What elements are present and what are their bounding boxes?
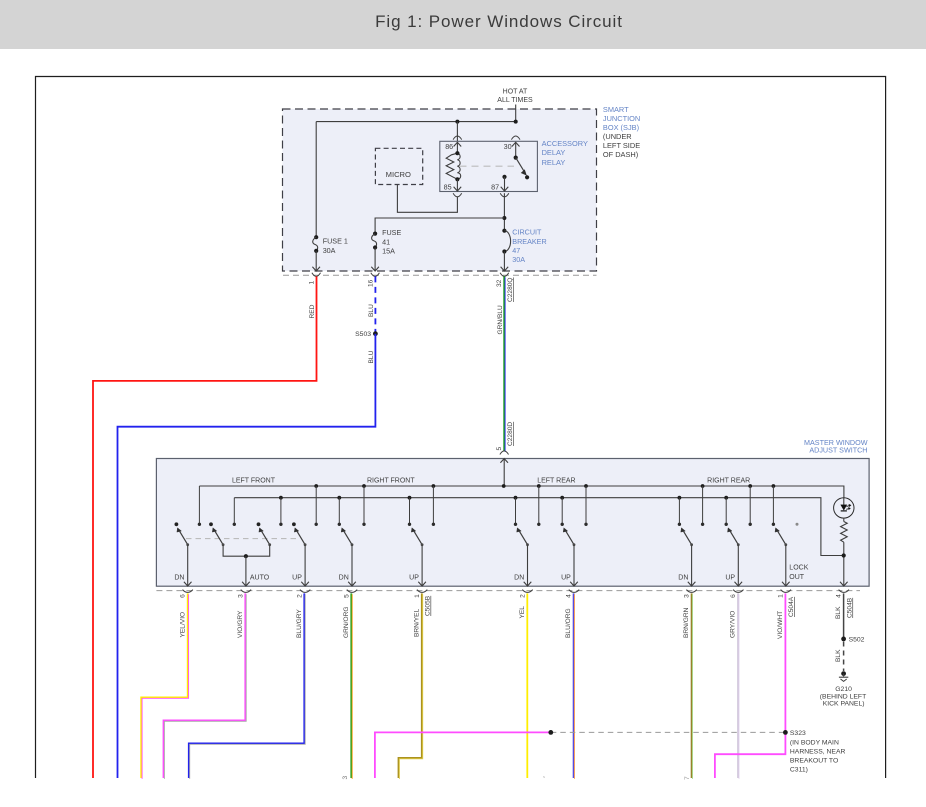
contact point x=562.2 bbox=[561, 523, 564, 526]
svg-text:16: 16 bbox=[367, 279, 374, 287]
svg-text:VIO/GRY: VIO/GRY bbox=[237, 610, 244, 638]
master connector arc x=785.8 bbox=[781, 590, 791, 593]
svg-text:87: 87 bbox=[491, 182, 499, 191]
relay actuator dashed link bbox=[460, 165, 515, 167]
splice S502 bbox=[841, 637, 846, 642]
svg-text:30: 30 bbox=[504, 142, 512, 151]
master switch entry connector arc bbox=[500, 451, 509, 455]
svg-text:YEL: YEL bbox=[519, 606, 526, 619]
svg-text:BLU/GRY: BLU/GRY bbox=[296, 609, 303, 638]
svg-text:32: 32 bbox=[496, 279, 503, 287]
breaker CB47 element bbox=[504, 231, 510, 252]
wire BLU/ORG run bbox=[573, 593, 575, 778]
node lower bus x=280.9 bbox=[279, 496, 283, 500]
switch output arrow RR UP bbox=[735, 582, 743, 586]
svg-text:(IN BODY MAIN: (IN BODY MAIN bbox=[790, 739, 839, 746]
open contact dot x=176.4 bbox=[175, 522, 179, 526]
lower-bus contact stub x=726.2 bbox=[725, 498, 727, 525]
upper-bus contact stub x=702.6 bbox=[702, 486, 704, 524]
switch output wire LF UP bbox=[304, 545, 306, 586]
relay pin 86 connector arc bbox=[453, 136, 462, 140]
svg-text:47: 47 bbox=[512, 246, 520, 255]
micro module dashed box bbox=[375, 148, 422, 184]
contact point x=364.0 bbox=[362, 523, 365, 526]
wire VIO/WHT upper run bbox=[784, 593, 786, 732]
relay pin 86 arrow bbox=[454, 142, 462, 146]
master connector arc x=245.9 bbox=[241, 590, 251, 593]
breaker CB47 bottom node bbox=[502, 249, 506, 253]
relay pin 87 arrow bbox=[501, 187, 509, 191]
svg-text:C505B: C505B bbox=[425, 595, 432, 616]
switch output arrow RF DN bbox=[348, 582, 356, 586]
lower-bus contact stub x=339.3 bbox=[338, 498, 340, 525]
switch blade LF DN bbox=[180, 531, 188, 544]
svg-text:RED: RED bbox=[309, 304, 316, 318]
svg-text:LEFT SIDE: LEFT SIDE bbox=[603, 141, 640, 150]
svg-text:15A: 15A bbox=[382, 247, 395, 256]
upper-bus contact stub x=750.2 bbox=[749, 486, 751, 524]
svg-text:4: 4 bbox=[566, 594, 573, 598]
svg-text:GRN/BLU: GRN/BLU bbox=[497, 305, 504, 335]
wire SJB top bus bbox=[316, 121, 516, 123]
upper-bus contact stub x=773.4 bbox=[772, 486, 774, 524]
wire BLU lower run bbox=[118, 334, 376, 778]
svg-text:OUT: OUT bbox=[789, 574, 805, 581]
lower-bus contact stub x=280.9 bbox=[280, 498, 282, 525]
master switch entry arrow bbox=[500, 459, 508, 463]
svg-text:AUTO: AUTO bbox=[250, 574, 270, 581]
diagram outer frame bbox=[36, 77, 886, 779]
SJB breaker connector arc bbox=[500, 273, 509, 277]
ground G210 symbol bbox=[843, 674, 845, 677]
svg-text:UP: UP bbox=[561, 574, 571, 581]
switch blade RF UP bbox=[414, 531, 422, 544]
open contact dot x=258.5 bbox=[257, 522, 261, 526]
node lower bus x=562.2 bbox=[560, 496, 564, 500]
wire fuse41 to SJB edge bbox=[374, 248, 376, 272]
svg-text:5: 5 bbox=[496, 447, 503, 451]
svg-text:C504B: C504B bbox=[846, 597, 853, 618]
fuse F1 element bbox=[313, 237, 318, 251]
svg-text:CIRCUIT: CIRCUIT bbox=[512, 228, 542, 237]
node upper bus x=316.2 bbox=[314, 484, 318, 488]
fuse F41 bottom node bbox=[373, 245, 377, 249]
wire GRY/VIO run bbox=[737, 593, 739, 778]
fuse F41 element bbox=[372, 234, 377, 248]
fuse F1 bottom node bbox=[314, 249, 318, 253]
svg-text:S503: S503 bbox=[355, 331, 371, 338]
upper-bus contact stub x=586.0 bbox=[585, 486, 587, 524]
switch blade LR DN bbox=[520, 531, 528, 544]
svg-text:BLU: BLU bbox=[368, 350, 375, 363]
svg-text:GRY/VIO: GRY/VIO bbox=[730, 611, 737, 638]
switch output arrow LF UP bbox=[301, 582, 309, 586]
auto tie node bbox=[244, 554, 248, 558]
svg-text:85: 85 bbox=[444, 182, 452, 191]
master connector arc x=352.0 bbox=[347, 590, 357, 593]
SJB exit arrow breaker bbox=[501, 267, 509, 271]
svg-text:3: 3 bbox=[237, 594, 244, 598]
contact point x=702.6 bbox=[701, 523, 704, 526]
contact point x=726.2 bbox=[725, 523, 728, 526]
wire VIO/GRY run bbox=[164, 593, 246, 778]
switch output wire RR DN bbox=[691, 545, 693, 586]
master connector arc x=738.3 bbox=[733, 590, 743, 593]
node lower bus x=679.4 bbox=[678, 496, 682, 500]
svg-text:ACCESSORY: ACCESSORY bbox=[542, 139, 588, 148]
LED anode wire bbox=[843, 498, 845, 505]
svg-text:RELAY: RELAY bbox=[542, 158, 566, 167]
svg-text:G210: G210 bbox=[835, 686, 852, 693]
svg-text:LOCK: LOCK bbox=[789, 564, 808, 571]
lower-bus contact stub x=234.3 bbox=[233, 498, 235, 525]
switch output wire RF DN bbox=[351, 545, 353, 586]
svg-text:KICK PANEL): KICK PANEL) bbox=[823, 701, 865, 708]
fuse F1 top node bbox=[314, 235, 318, 239]
splice S323 node bbox=[783, 730, 788, 735]
relay switch common node pin 30 bbox=[514, 156, 518, 160]
resistor below LED bbox=[841, 522, 848, 543]
LED cathode bar bbox=[841, 510, 847, 512]
upper-bus contact stub x=433.4 bbox=[432, 486, 434, 524]
node upper bus x=364.0 bbox=[362, 484, 366, 488]
svg-text:HOT AT: HOT AT bbox=[503, 89, 528, 96]
svg-text:C504A: C504A bbox=[788, 596, 795, 617]
SJB exit arrow fuse41 bbox=[371, 267, 379, 271]
svg-text:86: 86 bbox=[445, 142, 453, 151]
node upper bus x=750.2 bbox=[748, 484, 752, 488]
switch output arrow LR UP bbox=[570, 582, 578, 586]
svg-text:6: 6 bbox=[180, 594, 187, 598]
svg-text:3: 3 bbox=[684, 594, 691, 598]
open contact dot x=211.0 bbox=[209, 522, 213, 526]
switch output arrow LF DN bbox=[184, 582, 192, 586]
svg-text:OF DASH): OF DASH) bbox=[603, 150, 638, 159]
contact point x=515.5 bbox=[514, 523, 517, 526]
wire pin86 to coil bbox=[456, 142, 458, 153]
node top bus / pin86 branch bbox=[455, 120, 459, 124]
master window adjust switch enclosure bbox=[156, 459, 869, 587]
contact point x=199.4 bbox=[198, 523, 201, 526]
node upper bus x=773.4 bbox=[772, 484, 776, 488]
contact point x=773.4 bbox=[772, 523, 775, 526]
svg-text:MICRO: MICRO bbox=[386, 170, 411, 179]
lower-bus contact stub x=562.2 bbox=[561, 498, 563, 525]
svg-text:SMART: SMART bbox=[603, 105, 629, 114]
wire YEL/VIO run bbox=[141, 593, 188, 778]
wire lower feed bus bbox=[234, 498, 843, 556]
master connector arc x=691.6 bbox=[686, 590, 696, 593]
svg-text:DN: DN bbox=[514, 574, 524, 581]
node resistor/bus join bbox=[842, 553, 846, 557]
relay switch blade end dot bbox=[525, 175, 529, 179]
svg-text:S502: S502 bbox=[849, 636, 865, 643]
SJB fuse41 connector arc bbox=[371, 273, 380, 277]
relay pin 30 connector arc bbox=[511, 136, 520, 140]
svg-text:RIGHT REAR: RIGHT REAR bbox=[707, 477, 750, 484]
svg-text:30A: 30A bbox=[323, 246, 336, 255]
SJB exit arrow fuse1 bbox=[312, 267, 320, 271]
contact point x=538.8 bbox=[537, 523, 540, 526]
svg-text:1: 1 bbox=[308, 281, 315, 285]
relay switch blade arrowhead bbox=[521, 170, 526, 175]
svg-text:30A: 30A bbox=[512, 255, 525, 264]
svg-text:BOX (SJB): BOX (SJB) bbox=[603, 123, 639, 132]
contact point x=316.2 bbox=[315, 523, 318, 526]
svg-text:UP: UP bbox=[409, 574, 419, 581]
relay pin 87 connector arc bbox=[500, 193, 509, 197]
svg-text:JUNCTION: JUNCTION bbox=[603, 114, 640, 123]
wire upper feed bus bbox=[199, 486, 844, 498]
wire VIO/WHT lower run bbox=[715, 732, 786, 778]
svg-text:GRN/ORG: GRN/ORG bbox=[343, 606, 350, 638]
svg-text:(BEHIND LEFT: (BEHIND LEFT bbox=[820, 693, 866, 700]
svg-text:6: 6 bbox=[730, 594, 737, 598]
upper-bus contact stub x=199.4 bbox=[198, 486, 200, 524]
relay coil humps bbox=[457, 153, 460, 179]
page title bar bbox=[0, 0, 926, 49]
master connector arc x=422.1 bbox=[417, 590, 427, 593]
node upper bus x=538.8 bbox=[537, 484, 541, 488]
wire RED circuit 1 bbox=[93, 276, 317, 778]
master switch connector face dashed line bbox=[156, 590, 860, 592]
svg-text:1: 1 bbox=[777, 594, 784, 598]
svg-text:DN: DN bbox=[174, 574, 184, 581]
smart junction box (SJB) enclosure bbox=[283, 109, 597, 271]
node lower bus x=409.5 bbox=[408, 496, 412, 500]
relay pin 30 arrow bbox=[512, 142, 520, 146]
SJB connector face dashed line bbox=[283, 274, 597, 276]
svg-text:HARNESS, NEAR: HARNESS, NEAR bbox=[790, 748, 846, 755]
switch output wire LF AUTO bbox=[245, 556, 247, 586]
wire micro to relay pin 85 bbox=[397, 185, 457, 213]
node upper bus x=586.0 bbox=[584, 484, 588, 488]
fuse F41 top node bbox=[373, 232, 377, 236]
ground G210 node bbox=[841, 671, 846, 676]
svg-text:LEFT REAR: LEFT REAR bbox=[537, 477, 575, 484]
node top bus / pin30 feed bbox=[514, 120, 518, 124]
svg-text:C2280Q: C2280Q bbox=[507, 277, 514, 302]
wire top bus to fuse 1 bbox=[315, 122, 317, 238]
LED arrow 2 bbox=[846, 508, 849, 511]
svg-text:ADJUST SWITCH: ADJUST SWITCH bbox=[809, 446, 867, 455]
node upper bus x=702.6 bbox=[701, 484, 705, 488]
switch blade LF AUTO-L bbox=[215, 531, 223, 544]
svg-text:DN: DN bbox=[678, 574, 688, 581]
relay switch blade bbox=[516, 158, 526, 174]
svg-text:(UNDER: (UNDER bbox=[603, 132, 632, 141]
contact point x=280.9 bbox=[279, 523, 282, 526]
svg-text:BLK: BLK bbox=[835, 606, 842, 619]
switch output wire LF DN bbox=[187, 545, 189, 586]
node lower bus x=515.5 bbox=[514, 496, 518, 500]
master connector arc x=187.7 bbox=[183, 590, 193, 593]
switch blade LF AUTO-R bbox=[262, 531, 270, 544]
svg-text:FUSE 1: FUSE 1 bbox=[323, 237, 348, 246]
svg-text:ALL TIMES: ALL TIMES bbox=[497, 97, 533, 104]
contact point x=679.4 bbox=[678, 523, 681, 526]
switch output arrow BLK bbox=[840, 582, 848, 586]
svg-text:BREAKOUT TO: BREAKOUT TO bbox=[790, 758, 838, 765]
wire pin 87 drop bbox=[504, 177, 506, 191]
svg-text:BREAKER: BREAKER bbox=[512, 237, 546, 246]
svg-text:7: 7 bbox=[684, 776, 691, 780]
switch output arrow LR DN bbox=[524, 582, 532, 586]
wire pin86 drop bbox=[456, 122, 458, 142]
clipped mark near YEL bbox=[544, 777, 545, 778]
node coil bottom bbox=[455, 177, 459, 181]
wire VIO/WHT branch run bbox=[375, 732, 551, 778]
switch output arrow RF UP bbox=[418, 582, 426, 586]
svg-text:UP: UP bbox=[292, 574, 302, 581]
open contact dot lockout bbox=[796, 523, 799, 526]
svg-text:S323: S323 bbox=[790, 730, 806, 737]
wire BRN/YEL run bbox=[399, 593, 422, 778]
svg-text:BLK: BLK bbox=[835, 649, 842, 662]
SJB fuse1 connector arc bbox=[312, 273, 321, 277]
svg-text:2: 2 bbox=[519, 594, 526, 598]
master connector arc x=843.8 bbox=[839, 590, 849, 593]
node lower bus x=726.2 bbox=[724, 496, 728, 500]
svg-text:1: 1 bbox=[414, 594, 421, 598]
master connector arc x=574.0 bbox=[569, 590, 579, 593]
svg-text:FUSE: FUSE bbox=[382, 228, 401, 237]
svg-text:BLU: BLU bbox=[368, 304, 375, 317]
svg-text:4: 4 bbox=[836, 594, 843, 598]
switch blade RR UP bbox=[730, 531, 738, 544]
splice S503 bbox=[373, 331, 378, 336]
wire hot feed into SJB bbox=[515, 105, 517, 122]
node upper bus x=433.4 bbox=[432, 484, 436, 488]
svg-text:5: 5 bbox=[343, 594, 350, 598]
node breaker / fuse41 tap bbox=[502, 216, 506, 220]
svg-text:C2280D: C2280D bbox=[507, 422, 514, 446]
node upper bus x=503.7 bbox=[502, 484, 506, 488]
wire BLU dashed segment above S503 bbox=[374, 276, 376, 333]
auto switch tie bar bbox=[223, 545, 270, 557]
wire relay 87 to circuit breaker bbox=[503, 193, 505, 231]
svg-text:C311): C311) bbox=[790, 767, 808, 774]
contact point x=234.3 bbox=[233, 523, 236, 526]
lower-bus contact stub x=515.5 bbox=[515, 498, 517, 525]
switch blade LOCKOUT bbox=[778, 531, 786, 544]
switch output wire RF UP bbox=[421, 545, 423, 586]
contact point x=433.4 bbox=[432, 523, 435, 526]
wire C2280D inside master box bbox=[503, 459, 505, 486]
lower-bus contact stub x=679.4 bbox=[678, 498, 680, 525]
svg-text:VIO/WHT: VIO/WHT bbox=[777, 611, 784, 639]
wire LED to resistor bbox=[843, 518, 845, 521]
wire resistor to lockout feed node bbox=[843, 542, 845, 586]
contact point x=339.3 bbox=[338, 523, 341, 526]
switch blade RR DN bbox=[684, 531, 692, 544]
wire BRN/GRN run bbox=[691, 593, 693, 778]
wire YEL run bbox=[526, 593, 528, 778]
wire breaker to SJB edge bbox=[503, 252, 505, 272]
relay pin 85 arrow bbox=[454, 187, 462, 191]
lower-bus contact stub x=409.5 bbox=[409, 498, 411, 525]
contact point x=586.0 bbox=[584, 523, 587, 526]
accessory delay relay box bbox=[440, 141, 538, 191]
switch output wire LR UP bbox=[573, 545, 575, 586]
switch output wire LOCKOUT bbox=[785, 545, 787, 586]
wire fuse 41 feed bbox=[375, 218, 504, 234]
relay pin 87 node bbox=[502, 175, 506, 179]
node VIO/WHT branch bbox=[548, 730, 553, 735]
upper-bus contact stub x=364.0 bbox=[363, 486, 365, 524]
svg-text:YEL/VIO: YEL/VIO bbox=[179, 612, 186, 638]
wire pin30 to switch bbox=[515, 142, 517, 157]
wire BLU/GRY run bbox=[189, 593, 304, 778]
wire GRN/ORG run bbox=[350, 593, 352, 778]
node coil top bbox=[455, 151, 459, 155]
wire GRN/BLU circuit 32 bbox=[503, 276, 505, 451]
svg-text:BRN/GRN: BRN/GRN bbox=[683, 607, 690, 638]
svg-text:BRN/YEL: BRN/YEL bbox=[413, 608, 420, 637]
node lower bus x=339.3 bbox=[337, 496, 341, 500]
LED triangle bbox=[841, 505, 847, 510]
switch blade LF UP bbox=[297, 531, 305, 544]
svg-text:UP: UP bbox=[725, 574, 735, 581]
upper-bus contact stub x=538.8 bbox=[538, 486, 540, 524]
wire fuse1 to SJB edge bbox=[315, 251, 317, 271]
svg-text:RIGHT FRONT: RIGHT FRONT bbox=[367, 477, 415, 484]
contact point x=750.2 bbox=[749, 523, 752, 526]
svg-text:DELAY: DELAY bbox=[542, 148, 566, 157]
switch blade LR UP bbox=[566, 531, 574, 544]
svg-text:BLU/ORG: BLU/ORG bbox=[565, 608, 572, 638]
master connector arc x=527.5 bbox=[522, 590, 532, 593]
contact point x=409.5 bbox=[408, 523, 411, 526]
svg-text:DN: DN bbox=[339, 574, 349, 581]
switch output arrow LOCKOUT bbox=[782, 582, 790, 586]
svg-text:2: 2 bbox=[296, 594, 303, 598]
open contact dot x=293.9 bbox=[292, 522, 296, 526]
upper-bus contact stub x=316.2 bbox=[315, 486, 317, 524]
switch output arrow RR DN bbox=[688, 582, 696, 586]
svg-text:3: 3 bbox=[342, 776, 349, 780]
switch output arrow LF AUTO bbox=[242, 582, 250, 586]
splice S323 dashed tie bbox=[551, 731, 786, 733]
LED lamp circle bbox=[834, 498, 854, 518]
left front gang dashed link bbox=[186, 538, 299, 540]
switch blade RF DN bbox=[344, 531, 352, 544]
LED arrow 1 bbox=[847, 505, 851, 506]
switch output wire RR UP bbox=[737, 545, 739, 586]
wire BLK run bbox=[843, 593, 845, 639]
switch output wire LR DN bbox=[527, 545, 529, 586]
breaker CB47 top node bbox=[502, 229, 506, 233]
svg-text:LEFT FRONT: LEFT FRONT bbox=[232, 477, 276, 484]
master connector arc x=305.1 bbox=[300, 590, 310, 593]
relay pin 85 connector arc bbox=[453, 193, 462, 197]
wire coil to pin 85 bbox=[456, 179, 458, 191]
wire BLK dashed to ground bbox=[843, 642, 845, 672]
svg-text:41: 41 bbox=[382, 237, 390, 246]
relay coil zigzag bbox=[446, 153, 457, 179]
